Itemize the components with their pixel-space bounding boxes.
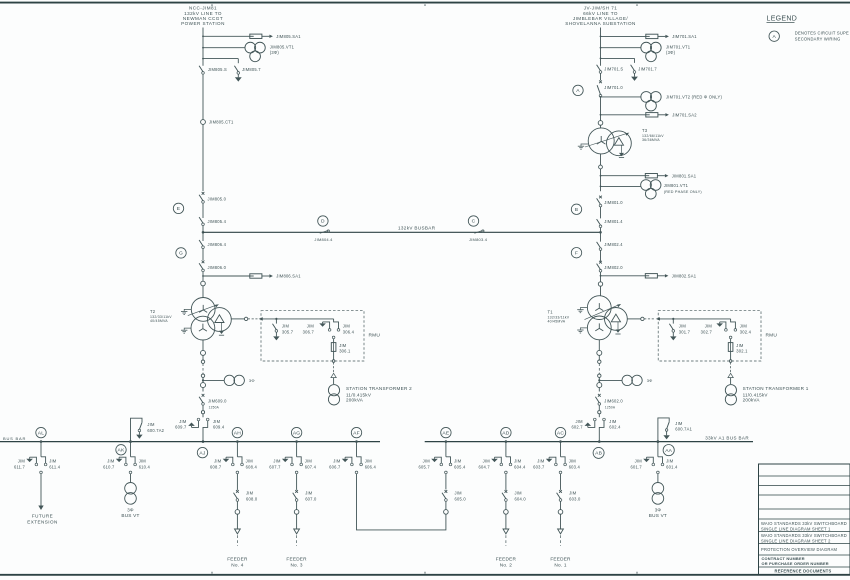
svg-text:JIM701.SA1: JIM701.SA1	[672, 34, 697, 39]
svg-text:200kVA: 200kVA	[743, 398, 761, 403]
junction node on busbar at x=130.5	[129, 440, 132, 443]
svg-text:JIM: JIM	[333, 458, 341, 463]
svg-text:JIM: JIM	[246, 458, 254, 463]
bottom contact node of pair	[295, 471, 298, 474]
svg-text:606.4: 606.4	[365, 465, 377, 470]
surge arrester JIM805.SA1	[250, 34, 301, 39]
svg-text:JIM: JIM	[514, 458, 522, 463]
bottom contact node of pair	[445, 471, 448, 474]
JIM801.VT1 label	[664, 183, 702, 194]
node AE	[441, 427, 451, 437]
junction node on busbar at x=41.0	[40, 440, 43, 443]
current transformer	[598, 121, 603, 126]
wire drop from busbar	[296, 442, 298, 457]
wire dashed cable to RMU	[248, 318, 258, 320]
junction node on busbar at x=560.5	[559, 440, 562, 443]
svg-text:611.7: 611.7	[14, 465, 26, 470]
svg-text:JIM802.SA1: JIM802.SA1	[672, 274, 697, 279]
voltage transformer JIM805.VT1	[245, 42, 295, 61]
node AG	[291, 427, 301, 437]
node A	[573, 85, 583, 95]
wire SA branch at y=36.4	[601, 35, 646, 37]
wire	[598, 388, 600, 392]
svg-text:600.7A2: 600.7A2	[147, 428, 164, 433]
surge arrester JIM701.SA1	[646, 34, 697, 39]
svg-text:A: A	[772, 34, 776, 40]
current transformer	[598, 411, 601, 414]
cable entry arrow into RMU 1	[656, 317, 660, 320]
wire incoming 66kV line	[600, 28, 602, 66]
circuit breaker JIM805.0	[199, 192, 227, 203]
wire	[202, 272, 204, 282]
svg-text:40/45MVA: 40/45MVA	[150, 319, 168, 323]
bus section isolator JIM804.4	[314, 230, 333, 242]
wire inside RMU 1	[660, 318, 731, 320]
tertiary bushing node	[244, 317, 247, 320]
svg-text:JIM805.SA1: JIM805.SA1	[276, 34, 301, 39]
svg-text:STATION TRANSFORMER 2: STATION TRANSFORMER 2	[346, 386, 412, 391]
svg-text:JIM: JIM	[49, 458, 57, 463]
svg-text:JIM: JIM	[307, 324, 315, 329]
wire to T1	[600, 286, 602, 296]
wire	[600, 169, 602, 191]
33kV A1 busbar (right)	[425, 436, 753, 442]
wire drop from busbar	[40, 442, 42, 457]
wire SA branch at y=36.3	[203, 35, 250, 37]
current transformer	[597, 350, 602, 355]
wire VT branch	[601, 185, 642, 187]
svg-text:(3Φ): (3Φ)	[666, 50, 676, 55]
wire	[598, 377, 600, 382]
earth switch JIM610.7	[103, 457, 127, 469]
isolator JIM302.4	[731, 319, 752, 335]
wire to T3	[600, 125, 602, 128]
isolator JIM802.4	[597, 242, 624, 251]
wire SA branch at y=275.8	[601, 275, 646, 277]
feeder arrow	[558, 529, 564, 534]
svg-text:JIM: JIM	[666, 458, 674, 463]
node AK	[116, 445, 126, 455]
svg-text:T2: T2	[150, 309, 156, 314]
earth switch JIM607.7	[269, 457, 293, 469]
svg-text:603.4: 603.4	[569, 465, 581, 470]
wire SA branch at y=114.8	[601, 114, 646, 116]
svg-text:JIM802.0: JIM802.0	[604, 265, 623, 270]
svg-text:No. 3: No. 3	[290, 562, 302, 567]
svg-text:JIM: JIM	[365, 458, 373, 463]
junction node on busbar at x=505.9	[505, 440, 508, 443]
earth switch JIM604.7	[479, 457, 503, 469]
svg-text:1250A: 1250A	[209, 405, 220, 409]
wire	[296, 474, 298, 490]
node AC	[555, 427, 565, 437]
current transformer	[444, 510, 449, 515]
isolator JIM601.4	[658, 457, 678, 470]
circuit breaker JIM603.0	[557, 490, 581, 501]
svg-text:200kVA: 200kVA	[346, 398, 364, 403]
isolator JIM306.4	[334, 319, 355, 335]
wire	[236, 501, 238, 510]
wire	[598, 405, 600, 410]
junction	[657, 440, 660, 443]
svg-text:RMU: RMU	[766, 333, 778, 339]
bottom contact node of pair	[505, 471, 508, 474]
current transformer JIM805.CT1	[201, 120, 234, 125]
wire	[202, 355, 204, 360]
fuse JIM306.1	[331, 343, 351, 354]
cable sealing end node	[598, 360, 601, 363]
svg-text:AD: AD	[502, 430, 509, 436]
svg-text:610.4: 610.4	[139, 465, 151, 470]
svg-text:306.4: 306.4	[343, 329, 355, 334]
svg-text:602.4: 602.4	[609, 424, 621, 429]
svg-text:JIM: JIM	[537, 458, 545, 463]
svg-text:JIM801.0: JIM801.0	[604, 200, 623, 205]
junction	[129, 440, 132, 443]
svg-text:603.7: 603.7	[533, 465, 545, 470]
transformer T1 (132/33/11kV 40/45MVA)	[587, 296, 627, 340]
svg-text:JIM602.0: JIM602.0	[604, 398, 623, 403]
earth switch JIM305.7	[273, 319, 294, 341]
svg-text:JIM805.CT1: JIM805.CT1	[209, 120, 234, 125]
bus section isolator JIM803.4	[469, 230, 488, 242]
surge arrester JIM701.SA2	[646, 113, 697, 118]
bus VT label	[649, 508, 667, 519]
junction	[275, 318, 277, 320]
svg-text:302.7: 302.7	[701, 329, 713, 334]
bottom contact node of pair	[236, 471, 239, 474]
isolator JIM609.4	[203, 418, 225, 441]
svg-text:11/0.415kV: 11/0.415kV	[743, 392, 769, 397]
svg-text:JIM806.0: JIM806.0	[208, 265, 227, 270]
svg-text:305.7: 305.7	[282, 329, 294, 334]
svg-text:JIM: JIM	[705, 324, 713, 329]
svg-text:A: A	[576, 88, 580, 94]
wire	[333, 339, 335, 360]
earth switch JIM606.7	[329, 457, 353, 469]
bottom contact node of pair	[129, 471, 132, 474]
earth on T2 LV star point	[181, 328, 191, 333]
svg-text:JIM: JIM	[343, 324, 351, 329]
earth switch JIM608.7	[210, 457, 234, 469]
svg-text:JIM: JIM	[305, 490, 313, 495]
svg-text:3Φ: 3Φ	[127, 508, 134, 513]
svg-text:JIM: JIM	[147, 422, 155, 427]
junction node on busbar at x=599.3	[598, 440, 601, 443]
RMU 2 enclosure (dashed)	[261, 311, 380, 361]
svg-text:JIM804.4: JIM804.4	[314, 237, 333, 242]
wire	[202, 377, 204, 382]
wire dashed feeder tail	[505, 535, 507, 546]
wire dashed feeder tail	[236, 535, 238, 546]
wire drop from busbar	[356, 442, 358, 457]
wire dashed feeder tail	[560, 535, 562, 546]
svg-text:No. 4: No. 4	[231, 562, 243, 567]
svg-text:AL: AL	[38, 430, 44, 436]
current transformer	[201, 350, 206, 355]
svg-text:11/0.415kV: 11/0.415kV	[346, 392, 372, 397]
isolator JIM610.4	[131, 457, 151, 470]
node C	[468, 216, 478, 226]
svg-text:JIM: JIM	[339, 343, 347, 348]
node below pair	[729, 336, 732, 339]
svg-text:C: C	[472, 219, 476, 225]
wire	[296, 501, 298, 510]
svg-text:FEEDER: FEEDER	[550, 556, 571, 561]
svg-text:611.4: 611.4	[49, 465, 61, 470]
svg-text:SHOVELANNA SUBSTATION: SHOVELANNA SUBSTATION	[565, 21, 636, 26]
circuit breaker JIM608.0	[234, 490, 258, 501]
T3 label	[642, 128, 664, 142]
wire	[202, 405, 204, 410]
svg-text:AK: AK	[118, 448, 125, 454]
feeder label No. 1	[550, 556, 571, 567]
wire drop from busbar	[445, 442, 447, 457]
feeder label No. 4	[227, 556, 248, 567]
svg-text:JIM701.S: JIM701.S	[604, 66, 623, 71]
svg-text:40/45MVA: 40/45MVA	[548, 320, 566, 324]
wire	[202, 74, 204, 120]
node AF	[351, 427, 361, 437]
svg-text:(RED PHASE ONLY): (RED PHASE ONLY)	[664, 190, 702, 194]
svg-text:JIM802.4: JIM802.4	[604, 242, 623, 247]
svg-text:LEGEND: LEGEND	[767, 15, 798, 22]
svg-text:JIM801.4: JIM801.4	[604, 219, 623, 224]
T3 delta earth	[619, 145, 624, 157]
svg-text:JIM: JIM	[675, 421, 683, 426]
node AB	[593, 447, 604, 458]
earth switch JIM301.7	[669, 319, 690, 341]
svg-text:JIM: JIM	[740, 324, 748, 329]
wire	[730, 339, 732, 360]
svg-text:POWER STATION: POWER STATION	[181, 21, 225, 26]
svg-text:FEEDER: FEEDER	[496, 556, 517, 561]
svg-text:301.7: 301.7	[679, 329, 691, 334]
wire incoming 132kV line	[202, 28, 204, 66]
node AD	[501, 427, 511, 437]
junction node on busbar at x=237.4	[236, 440, 239, 443]
T3 tap changer arrow	[585, 133, 629, 147]
svg-text:SINGLE LINE DIAGRAM SHEET 1: SINGLE LINE DIAGRAM SHEET 1	[761, 527, 831, 532]
wire branch to earth isolator	[203, 58, 238, 60]
svg-text:JIM701.0: JIM701.0	[604, 85, 623, 90]
svg-text:JIM: JIM	[214, 458, 222, 463]
wire	[296, 514, 298, 529]
svg-text:606.7: 606.7	[329, 465, 341, 470]
isolator JIM602.4	[599, 418, 621, 441]
wire	[560, 514, 562, 529]
svg-text:D: D	[321, 219, 325, 225]
svg-text:603.0: 603.0	[569, 496, 581, 501]
isolator JIM607.4	[297, 457, 317, 470]
station transformer 1	[725, 385, 736, 405]
svg-text:609.7: 609.7	[175, 424, 187, 429]
svg-text:3Φ: 3Φ	[647, 378, 653, 383]
bus VT label	[121, 508, 139, 519]
wire	[657, 474, 659, 483]
earth switch JIM605.7	[419, 457, 443, 469]
svg-text:REFERENCE DOCUMENTS: REFERENCE DOCUMENTS	[775, 569, 832, 574]
RMU 1 enclosure (dashed)	[658, 311, 777, 361]
wire dashed cable	[598, 363, 600, 374]
svg-text:JIM: JIM	[18, 458, 26, 463]
svg-text:601.4: 601.4	[666, 465, 678, 470]
voltage transformer JIM801.VT1	[641, 180, 661, 199]
T2 tertiary delta earth	[219, 323, 224, 336]
svg-text:JIM801.SA1: JIM801.SA1	[672, 173, 697, 178]
wire dashed to station transformer 1	[730, 362, 732, 372]
isolator JIM801.4	[597, 219, 624, 228]
current transformer	[599, 165, 603, 169]
node AH	[232, 427, 242, 437]
surge arrester JIM801.SA1	[645, 173, 696, 178]
node E	[173, 203, 183, 213]
wire	[598, 355, 600, 360]
wire VT branch	[599, 379, 622, 381]
svg-text:AB: AB	[595, 451, 602, 457]
node below pair	[332, 336, 335, 339]
svg-text:605.7: 605.7	[419, 465, 431, 470]
svg-text:STATION TRANSFORMER 1: STATION TRANSFORMER 1	[743, 386, 809, 391]
surge arrester JIM802.SA1	[645, 274, 696, 279]
cable sealing end node	[201, 374, 204, 377]
voltage transformer JIM701.VT2	[641, 92, 661, 111]
svg-text:RMU: RMU	[369, 333, 381, 339]
wire bus tie U-link	[357, 474, 446, 530]
wire dashed cable	[202, 363, 204, 374]
svg-text:JIM: JIM	[282, 324, 290, 329]
node AJ	[197, 447, 207, 457]
svg-text:604.7: 604.7	[479, 465, 491, 470]
svg-text:608.4: 608.4	[246, 465, 258, 470]
bottom contact node of pair	[40, 471, 43, 474]
wire to transformer T2	[202, 286, 204, 298]
svg-text:302.4: 302.4	[740, 329, 752, 334]
svg-text:JIM609.0: JIM609.0	[208, 398, 227, 403]
cable arrow	[728, 373, 733, 377]
wire drop from busbar	[657, 442, 659, 457]
svg-text:608.7: 608.7	[210, 465, 222, 470]
current transformer	[201, 281, 206, 286]
svg-text:JIM806.4: JIM806.4	[208, 242, 227, 247]
bottom contact node of pair	[355, 471, 358, 474]
svg-text:3Φ: 3Φ	[655, 508, 662, 513]
wire	[600, 97, 602, 121]
svg-text:SECONDARY WIRING: SECONDARY WIRING	[795, 37, 841, 42]
svg-text:F: F	[575, 250, 578, 256]
wire	[202, 388, 204, 392]
svg-text:PROTECTION OVERVIEW DIAGRAM: PROTECTION OVERVIEW DIAGRAM	[761, 547, 838, 552]
circuit breaker JIM602.0	[595, 394, 623, 409]
svg-text:OR PURCHASE ORDER NUMBER: OR PURCHASE ORDER NUMBER	[762, 561, 829, 566]
legend text	[795, 31, 849, 42]
feeder label No. 2	[496, 556, 517, 567]
wire	[600, 73, 602, 80]
svg-text:B: B	[575, 207, 578, 213]
svg-text:JIM805.4: JIM805.4	[208, 219, 227, 224]
svg-text:SINGLE LINE DIAGRAM SHEET 2: SINGLE LINE DIAGRAM SHEET 2	[761, 539, 831, 544]
earth switch JIM609.7	[175, 418, 200, 429]
node B	[571, 204, 581, 214]
junction node on busbar at x=203	[202, 440, 205, 443]
svg-text:G: G	[179, 251, 183, 257]
svg-text:JIM: JIM	[454, 458, 462, 463]
wire drop from busbar	[130, 442, 132, 457]
tertiary bushing node	[641, 317, 644, 320]
isolator JIM805.S	[199, 66, 227, 75]
132kV busbar	[203, 225, 601, 232]
wire	[505, 474, 507, 490]
svg-text:601.7: 601.7	[631, 465, 643, 470]
svg-text:33kV A1 BUS BAR: 33kV A1 BUS BAR	[705, 436, 749, 441]
svg-text:605.4: 605.4	[454, 465, 466, 470]
svg-text:FUTURE: FUTURE	[32, 514, 53, 519]
fuse JIM302.1	[728, 343, 748, 354]
surge arrester JIM806.SA1	[250, 274, 301, 279]
wire	[202, 248, 204, 260]
future extension label	[27, 514, 58, 525]
svg-text:600.7A1: 600.7A1	[675, 427, 692, 432]
node AL	[36, 427, 46, 437]
cable entry arrow into RMU 2	[259, 317, 263, 320]
svg-text:WAIO STANDARDS 33kV SWITCHBOAR: WAIO STANDARDS 33kV SWITCHBOARD	[761, 521, 847, 526]
cable arrow	[331, 373, 336, 377]
wire below T1	[598, 340, 600, 351]
svg-text:607.0: 607.0	[305, 496, 317, 501]
earth switch JIM603.7	[533, 457, 557, 469]
circuit breaker JIM806.0	[199, 260, 227, 271]
isolator JIM611.4	[41, 457, 61, 470]
wire	[560, 474, 562, 490]
isolator JIM806.4	[199, 240, 227, 249]
bottom contact node of pair	[559, 471, 562, 474]
wire VT2 branch	[601, 96, 642, 98]
wire dashed to station transformer 2	[333, 362, 335, 372]
svg-text:JIM701.VT2 (RED Φ ONLY): JIM701.VT2 (RED Φ ONLY)	[666, 94, 722, 99]
current transformer	[504, 510, 509, 515]
svg-text:604.4: 604.4	[514, 465, 526, 470]
svg-text:AH: AH	[234, 430, 241, 436]
svg-text:JIM805.VT1: JIM805.VT1	[270, 45, 295, 50]
node AA	[663, 445, 674, 456]
junction node on busbar at x=296.6	[295, 440, 298, 443]
earth switch JIM611.7	[14, 457, 38, 469]
legend title	[767, 15, 798, 22]
wire VT branch	[601, 47, 642, 49]
wire	[600, 207, 602, 219]
earth on T3 star point	[578, 144, 589, 149]
svg-text:BUS VT: BUS VT	[121, 513, 139, 518]
wire T2 tertiary	[231, 318, 244, 320]
feeder arrow	[294, 529, 300, 534]
circuit breaker JIM701.0	[597, 80, 623, 97]
wire	[505, 514, 507, 529]
svg-text:DENOTES CIRCUIT SUPE: DENOTES CIRCUIT SUPE	[795, 31, 849, 36]
earth switch JIM600.7A2	[131, 418, 165, 441]
svg-text:JIM805.0: JIM805.0	[208, 196, 227, 201]
T2 on-load tap changer arrow	[188, 304, 219, 315]
voltage transformer 3-phase (T2 LV)	[224, 375, 255, 385]
wire	[202, 414, 204, 417]
transformer T2 (132/33/11kV 40/45MVA)	[191, 298, 231, 341]
current transformer	[294, 510, 299, 515]
feeder arrow	[503, 529, 509, 534]
current transformer	[201, 383, 206, 388]
svg-text:No. 2: No. 2	[500, 562, 512, 567]
earth switch JIM805.7	[234, 66, 261, 82]
earth switch JIM602.7	[571, 418, 596, 429]
earth switch JIM701.7	[631, 65, 658, 81]
